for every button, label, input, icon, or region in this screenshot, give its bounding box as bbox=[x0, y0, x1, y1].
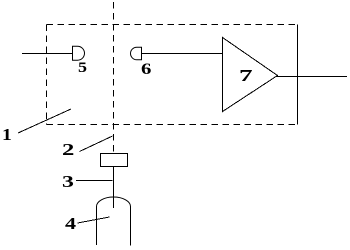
resistor rectangle 3 bbox=[101, 154, 128, 167]
wire resistor to tube bbox=[113, 167, 115, 209]
leader line for label 2 bbox=[80, 136, 113, 152]
label 2 bbox=[62, 141, 74, 158]
op-amp triangle 7 bbox=[223, 38, 278, 112]
dashed vertical axis line (node 2) bbox=[113, 2, 115, 153]
leader line for label 3 bbox=[76, 180, 113, 182]
label 5 bbox=[78, 61, 87, 76]
leader line for label 4 bbox=[78, 217, 110, 223]
wire input left bbox=[22, 53, 73, 55]
label 1 bbox=[2, 126, 12, 143]
dashed enclosure box top edge bbox=[47, 24, 298, 26]
dashed enclosure box bottom edge bbox=[47, 124, 298, 126]
wire 6 to amplifier bbox=[142, 53, 223, 55]
label 7 bbox=[239, 67, 253, 84]
solid enclosure box right edge bbox=[297, 25, 299, 125]
label 3 bbox=[62, 173, 74, 190]
connector symbol 6 bbox=[131, 47, 142, 60]
connector symbol 5 bbox=[73, 46, 85, 60]
leader line for label 1 bbox=[18, 109, 71, 133]
dashed enclosure box left edge bbox=[46, 25, 48, 125]
label 4 bbox=[65, 215, 76, 232]
label 6 bbox=[141, 62, 151, 78]
wire output right bbox=[277, 76, 348, 78]
vacuum tube envelope 4 bbox=[97, 197, 131, 245]
